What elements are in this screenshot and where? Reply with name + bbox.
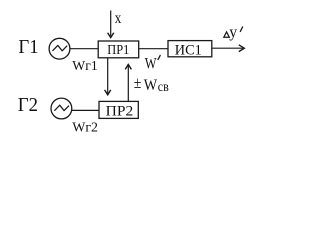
wire PR2 up to PR1 arrow bbox=[127, 65, 129, 102]
svg-text:Г2: Г2 bbox=[18, 94, 38, 116]
svg-text:y: y bbox=[229, 24, 237, 41]
svg-text:W: W bbox=[144, 77, 158, 94]
svg-text:Wг1: Wг1 bbox=[72, 59, 97, 74]
wire PR1 down to PR2 arrow bbox=[107, 58, 109, 94]
svg-text:ИС1: ИС1 bbox=[175, 42, 202, 58]
input x arrow wire bbox=[110, 11, 112, 38]
svg-text:±: ± bbox=[134, 73, 142, 92]
block IS1 box bbox=[168, 41, 212, 57]
svg-text:св: св bbox=[158, 80, 169, 95]
block PR1 box bbox=[98, 41, 139, 58]
prime of W' bbox=[158, 55, 160, 59]
wire IS1 to output arrow bbox=[212, 47, 244, 49]
wire G2 to PR2 bbox=[72, 109, 99, 111]
generator G2 circle bbox=[51, 98, 72, 119]
svg-text:Wг2: Wг2 bbox=[72, 121, 98, 136]
input x arrowhead bbox=[108, 33, 114, 38]
output arrowhead bbox=[239, 45, 245, 52]
prime of dy' bbox=[240, 27, 242, 32]
up arrowhead bbox=[125, 64, 131, 69]
generator G1 circle bbox=[49, 38, 70, 59]
svg-text:W: W bbox=[145, 56, 157, 73]
svg-text:Г1: Г1 bbox=[18, 36, 38, 58]
wire G1 to PR1 bbox=[70, 48, 98, 50]
generator G2 sine symbol bbox=[55, 105, 69, 110]
generator G1 sine symbol bbox=[53, 45, 67, 50]
block PR2 box bbox=[99, 101, 138, 118]
svg-text:ПР2: ПР2 bbox=[106, 104, 134, 120]
label delta of dy' output bbox=[224, 32, 230, 37]
svg-text:ПР1: ПР1 bbox=[107, 42, 129, 57]
svg-text:x: x bbox=[115, 10, 122, 27]
down arrowhead bbox=[105, 90, 111, 95]
wire PR1 to IS1 bbox=[139, 48, 168, 50]
